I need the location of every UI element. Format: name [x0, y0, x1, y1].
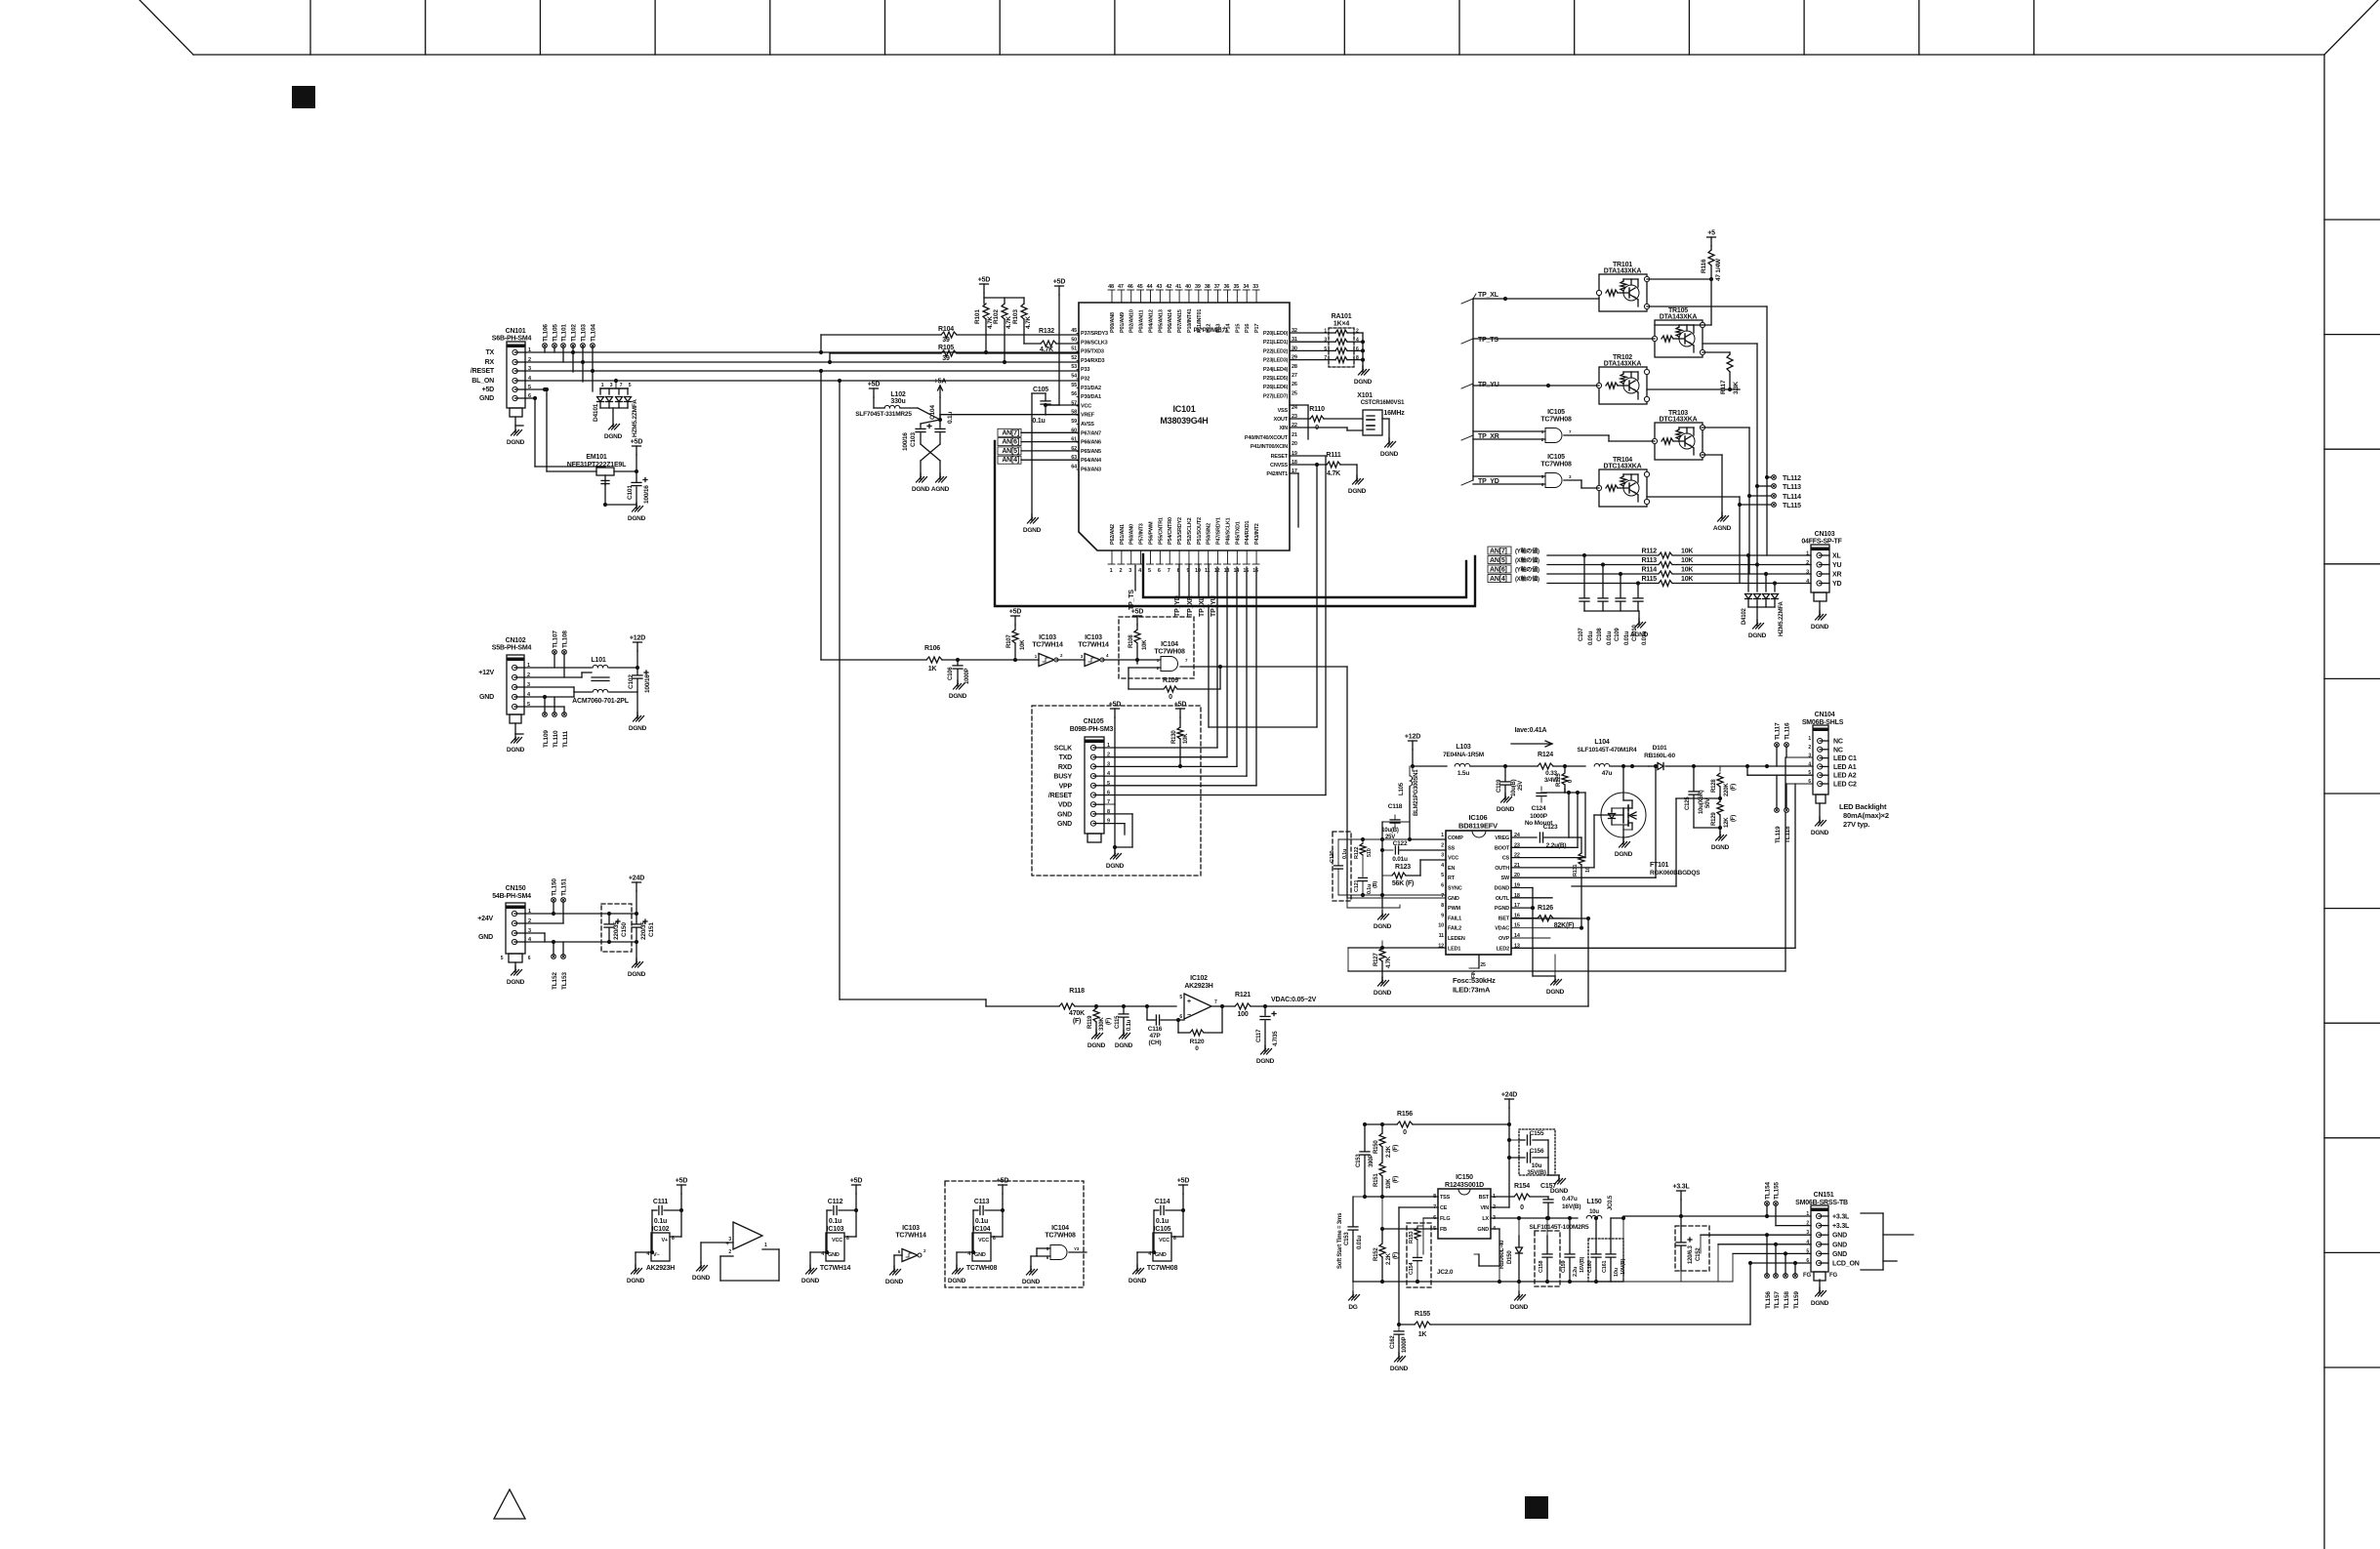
svg-text:SLF7045T-331MR25: SLF7045T-331MR25	[855, 411, 912, 418]
logic gate IC105 TC7WH08 lower	[1473, 454, 1572, 488]
wire CN151 bracket	[1861, 1213, 1913, 1270]
svg-text:PGND: PGND	[1495, 906, 1509, 912]
svg-text:/RESET: /RESET	[471, 368, 495, 375]
svg-text:P52/SCLK2: P52/SCLK2	[1187, 517, 1193, 545]
svg-text:56: 56	[1071, 391, 1077, 397]
svg-text:DGND: DGND	[629, 725, 647, 732]
svg-text:TL155: TL155	[1774, 1182, 1781, 1200]
svg-text:3: 3	[1441, 853, 1444, 859]
capacitor C161 10u	[1602, 1218, 1626, 1282]
CN102 shield wire	[515, 723, 523, 734]
svg-text:7: 7	[1569, 429, 1572, 434]
CN103 pin labels	[1806, 551, 1841, 589]
svg-text:XIN: XIN	[1279, 426, 1288, 431]
wire TP bus vertical	[1461, 294, 1476, 485]
page border top rule	[193, 54, 2324, 56]
connector CN104 SM06B-SHLS	[1802, 712, 1844, 803]
svg-text:RESET: RESET	[1271, 454, 1289, 460]
wire TX net	[525, 350, 1079, 354]
resistor R104 39	[821, 326, 1079, 352]
svg-text:47 1/4W: 47 1/4W	[1715, 258, 1722, 281]
svg-text:P20|LED0|: P20|LED0|	[1263, 331, 1289, 337]
svg-text:R108: R108	[1128, 634, 1134, 648]
ground DGND C162	[1390, 1353, 1409, 1372]
svg-text:16V(B): 16V(B)	[1562, 1203, 1580, 1210]
IC104 power block TC7WH08	[948, 1178, 1009, 1285]
svg-text:1: 1	[1441, 833, 1444, 838]
svg-text:P50/SIN2: P50/SIN2	[1207, 523, 1212, 545]
capacitor C153b 0.01u	[1344, 1197, 1365, 1282]
svg-text:GND: GND	[1057, 811, 1072, 818]
svg-text:CN105: CN105	[1084, 718, 1104, 725]
wire SYNC GND row	[1380, 893, 1446, 897]
svg-text:Soft Start Time = 3ms: Soft Start Time = 3ms	[1337, 1212, 1343, 1269]
svg-text:0.1u: 0.1u	[1156, 1218, 1169, 1225]
svg-text:NC: NC	[1833, 747, 1843, 754]
ground DGND CN102	[507, 734, 525, 754]
svg-text:AK2923H: AK2923H	[1184, 983, 1212, 990]
test point TL114	[1749, 494, 1801, 501]
svg-text:(F): (F)	[1106, 1018, 1112, 1025]
note Soft Start Time	[1337, 1212, 1343, 1269]
svg-text:L150: L150	[1586, 1199, 1601, 1205]
svg-text:VIN: VIN	[1480, 1205, 1489, 1211]
svg-text:BLM21PG300SN1: BLM21PG300SN1	[1414, 769, 1419, 816]
wire /RESET drop to R106	[821, 371, 926, 660]
svg-text:58: 58	[1071, 410, 1077, 416]
svg-text:LED C1: LED C1	[1833, 755, 1857, 762]
capacitor C120 0.1u	[1330, 839, 1348, 895]
wire LED1 to CN104	[1348, 757, 1785, 971]
svg-text:S6B-PH-SM4: S6B-PH-SM4	[492, 336, 532, 343]
svg-text:C102: C102	[628, 674, 635, 689]
IC101 top pins	[1108, 284, 1260, 333]
svg-text:41: 41	[1175, 284, 1181, 290]
svg-text:330K: 330K	[1099, 1017, 1105, 1031]
svg-text:TL112: TL112	[1783, 475, 1801, 482]
svg-text:0.1u: 0.1u	[654, 1218, 667, 1225]
transistor FT101 RGK060BBGDQS	[1601, 766, 1701, 876]
capacitor C103 100/16	[902, 425, 940, 477]
svg-text:GND: GND	[1057, 821, 1072, 828]
svg-text:38: 38	[1205, 284, 1211, 290]
inductor L150 SLF10145T-100M2R5	[1491, 1199, 1625, 1231]
IC150 pin names	[1433, 1194, 1497, 1233]
dashed box C120	[1333, 832, 1351, 901]
svg-text:TL117: TL117	[1775, 722, 1782, 740]
svg-text:11: 11	[1205, 568, 1211, 574]
logic gate IC105 TC7WH08 upper	[1473, 409, 1572, 443]
svg-text:BUSY: BUSY	[1053, 774, 1072, 781]
svg-text:C115: C115	[1115, 1015, 1121, 1029]
capacitor C162 1000P	[1390, 1325, 1408, 1356]
svg-text:DGND: DGND	[1115, 1042, 1133, 1049]
wire TR103 out vertical	[1702, 428, 1751, 574]
power +24D IC150	[1501, 1092, 1517, 1109]
svg-text:7: 7	[1168, 568, 1170, 574]
svg-text:DGND: DGND	[1711, 844, 1730, 851]
svg-text:47P: 47P	[1150, 1033, 1162, 1039]
svg-text:+12D: +12D	[1405, 734, 1420, 741]
ground DGND CN150	[507, 966, 525, 986]
svg-text:+3.3L: +3.3L	[1832, 1223, 1850, 1230]
svg-text:P42/INT1: P42/INT1	[1266, 471, 1288, 477]
svg-text:DGND: DGND	[1354, 379, 1373, 386]
svg-text:+5D: +5D	[1109, 702, 1122, 709]
svg-text:DGND: DGND	[1510, 1304, 1529, 1311]
svg-text:+3.3L: +3.3L	[1672, 1184, 1690, 1191]
svg-text:DTA143XKA: DTA143XKA	[1660, 314, 1698, 321]
capacitor C124 1000P NoMount	[1525, 787, 1585, 827]
svg-text:RA101: RA101	[1332, 313, 1352, 320]
svg-text:C154: C154	[1409, 1262, 1415, 1275]
connector CN101 S6B-PH-SM4	[492, 328, 532, 417]
svg-text:+12V: +12V	[478, 670, 494, 676]
svg-text:TL114: TL114	[1783, 494, 1801, 501]
svg-text:12K: 12K	[1724, 817, 1730, 828]
resistor R125 0	[1556, 766, 1574, 793]
dotted box C160 C161	[1588, 1239, 1623, 1282]
svg-text:SM06B-SHLS: SM06B-SHLS	[1802, 719, 1844, 726]
resistor R117 3.3K	[1703, 352, 1740, 394]
svg-text:C161: C161	[1602, 1261, 1608, 1273]
svg-text:IC105: IC105	[1547, 409, 1565, 416]
svg-text:(F): (F)	[1393, 1252, 1399, 1259]
svg-text:+24D: +24D	[1501, 1092, 1517, 1099]
svg-text:2: 2	[1060, 653, 1063, 658]
svg-text:P24|LED4|: P24|LED4|	[1263, 367, 1289, 373]
svg-text:Fosc:530kHz: Fosc:530kHz	[1453, 976, 1496, 985]
ground DGND C119	[1497, 794, 1515, 813]
page border top tick marks	[310, 0, 2034, 55]
svg-text:AN[6]: AN[6]	[1490, 567, 1507, 574]
test points TL101-TL106	[543, 324, 597, 391]
svg-text:IC104: IC104	[1161, 641, 1178, 648]
CN151 shield FG wire	[1819, 1280, 1821, 1290]
svg-text:59: 59	[1071, 419, 1077, 425]
test points TL154 TL155	[1765, 1182, 1812, 1226]
svg-text:FG: FG	[1803, 1273, 1811, 1279]
wire TR103 emitter to AGND	[1702, 455, 1722, 515]
capacitor C123 2.2u(B)	[1511, 793, 1569, 849]
svg-text:8: 8	[1441, 903, 1444, 909]
svg-text:48: 48	[1108, 284, 1114, 290]
capacitor C150 220/35	[604, 914, 628, 942]
svg-text:AN[4]: AN[4]	[1002, 457, 1019, 464]
svg-text:VSS: VSS	[1278, 408, 1289, 414]
svg-text:C158: C158	[1539, 1261, 1544, 1273]
svg-text:16V(B): 16V(B)	[1580, 1256, 1585, 1273]
svg-text:TC7WH14: TC7WH14	[1078, 642, 1109, 649]
svg-text:10K: 10K	[1142, 639, 1148, 650]
capacitor C116 47P	[1147, 1006, 1184, 1046]
svg-text:P65/AN5: P65/AN5	[1081, 449, 1101, 455]
svg-text:C104: C104	[929, 405, 936, 420]
svg-text:OUTL: OUTL	[1496, 896, 1510, 902]
wire BL_ON drop to opamp	[840, 381, 986, 1006]
svg-text:L103: L103	[1456, 744, 1470, 751]
svg-text:5: 5	[501, 956, 504, 961]
svg-text:DGND: DGND	[949, 693, 967, 700]
wire CN150 +24V net	[525, 912, 636, 923]
wire BL_ON net	[525, 379, 1079, 383]
wire TR101 out vertical	[1647, 306, 1769, 555]
resistor R154 0	[1491, 1183, 1548, 1211]
note JC0.5	[1608, 1195, 1614, 1210]
svg-text:RB160L-60: RB160L-60	[1644, 753, 1675, 759]
svg-text:20: 20	[1292, 441, 1297, 447]
capacitor C121 0.1uB	[1338, 877, 1382, 897]
svg-text:P06/AN14: P06/AN14	[1168, 308, 1173, 333]
svg-text:AN[7]: AN[7]	[1490, 549, 1507, 555]
svg-text:10K: 10K	[1681, 576, 1693, 583]
svg-text:GND: GND	[1832, 1233, 1847, 1240]
svg-text:4.7K: 4.7K	[1386, 956, 1392, 968]
svg-text:R104: R104	[938, 326, 954, 333]
svg-text:CN104: CN104	[1815, 712, 1835, 718]
svg-text:TL152: TL152	[552, 972, 558, 990]
svg-text:45: 45	[1137, 284, 1143, 290]
svg-text:TX: TX	[485, 349, 494, 356]
svg-text:TL104: TL104	[591, 324, 597, 342]
svg-text:+5D: +5D	[1053, 279, 1066, 286]
svg-text:JC2.0: JC2.0	[1437, 1269, 1454, 1276]
transistor TR101 DTA143XKA	[1596, 262, 1649, 311]
svg-text:2: 2	[1493, 1204, 1496, 1210]
svg-text:+24D: +24D	[629, 876, 644, 882]
net labels AN[7..4] at IC101	[998, 428, 1079, 464]
svg-text:0.1u: 0.1u	[947, 412, 954, 424]
svg-text:LED C2: LED C2	[1833, 782, 1857, 789]
svg-text:TL108: TL108	[562, 631, 569, 648]
svg-text:C101: C101	[627, 485, 634, 500]
ground AGND transistors	[1713, 512, 1732, 532]
svg-text:P34/RXD3: P34/RXD3	[1081, 358, 1105, 364]
svg-text:3: 3	[1128, 568, 1131, 574]
svg-text:IC105: IC105	[1547, 454, 1565, 461]
svg-text:R128: R128	[1711, 779, 1717, 793]
svg-text:EN: EN	[1448, 866, 1455, 872]
svg-text:DTA143XKA: DTA143XKA	[1604, 361, 1642, 368]
svg-text:GND: GND	[1448, 896, 1459, 902]
resistor R123 56K	[1382, 860, 1446, 887]
svg-text:+5D: +5D	[631, 439, 643, 446]
analog supply cross wires	[918, 397, 1079, 428]
svg-text:1K×4: 1K×4	[1334, 321, 1349, 328]
svg-text:100/16: 100/16	[644, 674, 651, 693]
svg-text:P22|LED2|: P22|LED2|	[1263, 348, 1289, 354]
wire gate to TR103 base	[1564, 435, 1655, 441]
svg-text:R127: R127	[1374, 953, 1379, 966]
resistor R150 2.2K	[1374, 1124, 1399, 1162]
svg-text:R156: R156	[1397, 1111, 1413, 1118]
ground DG C153	[1348, 1282, 1359, 1311]
op IC101 M38039G4H body	[1079, 303, 1290, 550]
svg-text:(F): (F)	[1393, 1176, 1399, 1183]
svg-text:R118: R118	[1069, 988, 1085, 995]
resistor R131 10	[1511, 764, 1658, 930]
svg-text:C116: C116	[1148, 1026, 1163, 1033]
svg-text:510: 510	[1367, 848, 1373, 857]
svg-text:DGND: DGND	[1748, 632, 1767, 639]
inductor L102 SLF7045T-331MR25	[855, 382, 918, 419]
svg-text:35V(B): 35V(B)	[1527, 1169, 1545, 1176]
svg-text:120/6.3: 120/6.3	[1688, 1245, 1694, 1264]
svg-text:CNVSS: CNVSS	[1270, 463, 1288, 469]
svg-text:AN[5]: AN[5]	[1490, 557, 1507, 564]
svg-text:DGND: DGND	[692, 1275, 711, 1282]
CN105 pin labels	[1048, 743, 1111, 828]
wire CN151 GND rows	[1681, 1235, 1811, 1282]
svg-text:2.2K: 2.2K	[1386, 1252, 1392, 1265]
power +5D C105	[1053, 279, 1066, 296]
svg-text:FLG: FLG	[1440, 1216, 1450, 1222]
svg-text:R103: R103	[1012, 309, 1019, 324]
svg-text:C124: C124	[1532, 805, 1546, 812]
svg-text:LCD_ON: LCD_ON	[1832, 1261, 1860, 1268]
svg-text:0.1u: 0.1u	[975, 1218, 988, 1225]
svg-text:R106: R106	[924, 645, 940, 652]
svg-text:27: 27	[1292, 373, 1297, 379]
svg-text:1K: 1K	[928, 666, 937, 673]
svg-text:CSTCR16M0VS1: CSTCR16M0VS1	[1361, 400, 1405, 406]
svg-text:C150: C150	[621, 922, 628, 937]
net labels AN right of bus	[1488, 547, 1539, 583]
svg-text:(Y軸の値): (Y軸の値)	[1515, 566, 1539, 574]
power +3.3L	[1672, 1184, 1690, 1201]
svg-text:47: 47	[1118, 284, 1124, 290]
svg-text:11: 11	[1439, 933, 1445, 939]
resistor R129 12K	[1711, 795, 1737, 835]
svg-text:BL_ON: BL_ON	[472, 378, 494, 385]
svg-text:V−: V−	[653, 1252, 659, 1258]
wire gate to TR104 base	[1564, 480, 1599, 488]
svg-text:ILED:73mA: ILED:73mA	[1453, 986, 1491, 995]
svg-text:NC: NC	[1833, 739, 1843, 746]
svg-text:−: −	[1187, 1012, 1191, 1019]
ground DGND CN105	[1106, 847, 1125, 870]
svg-text:P54/CNTR0: P54/CNTR0	[1168, 517, 1173, 545]
svg-text:XOUT: XOUT	[1274, 417, 1289, 423]
svg-text:R116: R116	[1701, 259, 1707, 273]
svg-text:AGND: AGND	[931, 486, 950, 493]
svg-text:0: 0	[1169, 694, 1172, 701]
diode D101 RB160L-60	[1644, 745, 1813, 770]
svg-text:10K: 10K	[1681, 549, 1693, 555]
svg-text:27V typ.: 27V typ.	[1843, 820, 1869, 829]
svg-text:TC7WH08: TC7WH08	[1540, 462, 1572, 469]
wire IC106 left rail	[1380, 822, 1446, 908]
svg-text:M38039G4H: M38039G4H	[1160, 416, 1208, 426]
svg-text:CS: CS	[1502, 856, 1510, 862]
svg-text:TSS: TSS	[1440, 1195, 1451, 1201]
svg-text:C114: C114	[1155, 1199, 1170, 1205]
svg-text:P66/AN6: P66/AN6	[1081, 440, 1101, 446]
svg-text:C113: C113	[974, 1199, 990, 1205]
svg-text:C118: C118	[1388, 803, 1403, 810]
ground DGND D150	[1510, 1282, 1529, 1311]
connector CN105 B09B-PH-SM3	[1070, 718, 1114, 842]
svg-text:ACM7060-701-2PL: ACM7060-701-2PL	[572, 698, 630, 705]
wire TSS CE FB left	[1363, 1195, 1438, 1325]
note triangle 1	[494, 1489, 525, 1519]
svg-text:(F): (F)	[1731, 815, 1737, 822]
svg-text:P30/DA1: P30/DA1	[1081, 394, 1101, 400]
svg-text:RB060L-40: RB060L-40	[1499, 1240, 1505, 1269]
svg-text:R112: R112	[1641, 549, 1657, 555]
svg-text:TL153: TL153	[561, 972, 568, 990]
svg-text:1: 1	[1110, 568, 1113, 574]
svg-text:R155: R155	[1415, 1311, 1430, 1318]
inverter IC103 TC7WH14 a	[1032, 634, 1063, 667]
svg-text:P01/AN9: P01/AN9	[1120, 312, 1126, 333]
svg-text:0.01u: 0.01u	[1392, 856, 1408, 863]
svg-text:BD8119EFV: BD8119EFV	[1458, 822, 1498, 831]
svg-text:(B): (B)	[1373, 881, 1378, 888]
svg-text:6: 6	[1179, 1014, 1182, 1020]
resistor R156 0 label	[1397, 1111, 1413, 1136]
op IC106 BD8119EFV body	[1446, 813, 1511, 955]
svg-text:HZM5.2ZMFA: HZM5.2ZMFA	[1779, 600, 1785, 636]
svg-text:0: 0	[1403, 1129, 1407, 1136]
svg-text:C120: C120	[1330, 851, 1335, 863]
svg-text:TC7WH08: TC7WH08	[1045, 1233, 1076, 1240]
svg-text:P55/CNTR1: P55/CNTR1	[1158, 517, 1164, 545]
svg-text:RT: RT	[1448, 876, 1456, 881]
net label VDAC	[1263, 997, 1588, 1008]
svg-text:25V: 25V	[1518, 781, 1524, 791]
svg-text:2: 2	[1119, 568, 1122, 574]
svg-text:B09B-PH-SM3: B09B-PH-SM3	[1070, 726, 1114, 733]
svg-text:4: 4	[1106, 653, 1109, 658]
ground DGND C117	[1256, 1045, 1275, 1065]
svg-text:10u(X5R): 10u(X5R)	[1699, 790, 1704, 814]
svg-text:C156: C156	[1530, 1148, 1544, 1155]
svg-text:1000P: 1000P	[1530, 813, 1548, 820]
svg-text:LX: LX	[1482, 1216, 1489, 1222]
connector CN103 04FFS-SP-TF	[1801, 531, 1842, 601]
svg-text:220K: 220K	[1724, 783, 1730, 796]
wire TR105 out vertical	[1703, 344, 1759, 565]
svg-text:R123: R123	[1395, 864, 1411, 871]
svg-text:P26|LED6|: P26|LED6|	[1263, 385, 1289, 390]
svg-text:C123: C123	[1543, 824, 1558, 831]
ground inverter spare	[885, 1266, 904, 1285]
svg-text:(F): (F)	[1731, 784, 1737, 791]
svg-text:C151: C151	[648, 922, 655, 937]
svg-text:AK2923H: AK2923H	[646, 1265, 675, 1272]
test points TL107 TL108	[553, 631, 569, 677]
resistor R121 100	[1211, 992, 1265, 1018]
svg-text:DGND: DGND	[1087, 1042, 1106, 1049]
svg-text:(Y軸の値): (Y軸の値)	[1515, 548, 1539, 555]
test point TL113	[1757, 484, 1801, 491]
svg-text:ISET: ISET	[1498, 916, 1510, 921]
svg-text:3.3K: 3.3K	[1733, 382, 1740, 394]
svg-text:10K: 10K	[1681, 567, 1693, 574]
page border top-right diagonal	[2324, 0, 2378, 55]
svg-text:DGND: DGND	[1380, 451, 1399, 458]
ground gate spare	[1022, 1266, 1041, 1285]
svg-text:P64/AN4: P64/AN4	[1081, 458, 1102, 464]
svg-text:P17: P17	[1254, 324, 1260, 333]
svg-text:SCLK: SCLK	[1054, 746, 1072, 753]
ground DGND RA101	[1354, 333, 1373, 386]
svg-text:0: 0	[1568, 779, 1574, 783]
inductor L103 7E04NA-1R5M	[1413, 744, 1507, 777]
svg-text:470K: 470K	[1069, 1010, 1085, 1017]
crystal X101 CSTCR16M0V53 16MHz	[1290, 392, 1405, 441]
